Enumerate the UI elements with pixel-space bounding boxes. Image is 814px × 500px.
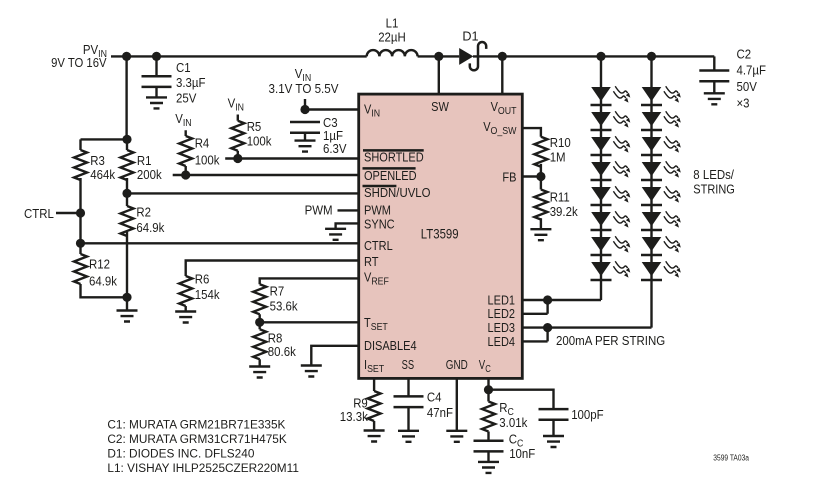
svg-text:GND: GND xyxy=(446,358,468,372)
svg-text:100k: 100k xyxy=(195,152,220,167)
svg-text:L1: L1 xyxy=(386,16,399,31)
svg-text:L1: VISHAY IHLP2525CZER220M11: L1: VISHAY IHLP2525CZER220M11 xyxy=(107,461,299,475)
svg-text:3599 TA03a: 3599 TA03a xyxy=(713,453,749,462)
svg-text:64.9k: 64.9k xyxy=(89,274,117,289)
svg-text:STRING: STRING xyxy=(693,181,735,196)
svg-text:SS: SS xyxy=(402,358,415,372)
svg-text:CTRL: CTRL xyxy=(364,239,393,253)
svg-text:50V: 50V xyxy=(737,79,758,94)
svg-text:C1: C1 xyxy=(176,60,191,75)
svg-text:100k: 100k xyxy=(247,134,272,149)
svg-text:PWM: PWM xyxy=(364,204,391,218)
svg-text:LT3599: LT3599 xyxy=(421,227,459,242)
svg-text:R1: R1 xyxy=(137,153,152,168)
svg-text:R3: R3 xyxy=(90,153,105,168)
svg-text:R6: R6 xyxy=(195,272,210,287)
svg-text:LED4: LED4 xyxy=(488,335,516,349)
svg-text:SHDN/UVLO: SHDN/UVLO xyxy=(364,186,431,200)
svg-text:PWM: PWM xyxy=(305,203,333,218)
svg-text:C2: MURATA GRM31CR71H475K: C2: MURATA GRM31CR71H475K xyxy=(107,432,286,446)
svg-text:3.1V TO 5.5V: 3.1V TO 5.5V xyxy=(269,81,339,96)
svg-text:SW: SW xyxy=(431,100,449,114)
svg-text:154k: 154k xyxy=(195,287,220,302)
svg-text:R12: R12 xyxy=(89,257,110,272)
svg-text:OPENLED: OPENLED xyxy=(364,169,417,183)
svg-text:SYNC: SYNC xyxy=(364,217,395,231)
svg-text:R11: R11 xyxy=(550,190,570,205)
svg-text:22µH: 22µH xyxy=(378,30,406,45)
svg-text:200mA PER STRING: 200mA PER STRING xyxy=(556,333,665,348)
svg-text:10nF: 10nF xyxy=(509,446,535,461)
svg-text:C2: C2 xyxy=(737,46,752,61)
svg-text:CTRL: CTRL xyxy=(24,206,54,221)
svg-text:39.2k: 39.2k xyxy=(550,204,578,219)
svg-text:FB: FB xyxy=(502,171,516,185)
svg-text:R5: R5 xyxy=(247,119,262,134)
svg-text:D1: DIODES INC. DFLS240: D1: DIODES INC. DFLS240 xyxy=(107,447,254,461)
svg-text:6.3V: 6.3V xyxy=(323,141,347,156)
svg-text:1M: 1M xyxy=(550,150,566,165)
svg-text:SHORTLED: SHORTLED xyxy=(364,151,424,165)
svg-text:D1: D1 xyxy=(462,28,478,43)
svg-text:LED1: LED1 xyxy=(488,293,516,307)
svg-text:VIN: VIN xyxy=(228,95,244,113)
svg-text:R7: R7 xyxy=(270,284,285,299)
svg-text:VIN: VIN xyxy=(175,111,191,129)
svg-text:LED2: LED2 xyxy=(488,307,516,321)
svg-text:13.3k: 13.3k xyxy=(340,409,368,424)
svg-text:R2: R2 xyxy=(136,205,151,220)
svg-text:DISABLE4: DISABLE4 xyxy=(364,339,417,353)
svg-text:9V TO 16V: 9V TO 16V xyxy=(51,55,107,70)
svg-text:R10: R10 xyxy=(550,135,571,150)
svg-text:100pF: 100pF xyxy=(571,407,604,422)
svg-text:RT: RT xyxy=(364,255,379,269)
svg-text:64.9k: 64.9k xyxy=(136,220,164,235)
svg-text:8 LEDs/: 8 LEDs/ xyxy=(693,167,734,182)
svg-text:47nF: 47nF xyxy=(427,405,453,420)
svg-text:3.3µF: 3.3µF xyxy=(176,75,206,90)
svg-text:C4: C4 xyxy=(427,390,442,405)
svg-text:LED3: LED3 xyxy=(488,321,516,335)
svg-text:464k: 464k xyxy=(90,167,115,182)
svg-text:53.6k: 53.6k xyxy=(270,299,298,314)
svg-text:80.6k: 80.6k xyxy=(268,344,296,359)
svg-text:C1: MURATA GRM21BR71E335K: C1: MURATA GRM21BR71E335K xyxy=(107,418,285,432)
svg-text:3.01k: 3.01k xyxy=(499,415,527,430)
svg-text:25V: 25V xyxy=(176,90,197,105)
svg-text:R4: R4 xyxy=(195,135,210,150)
svg-text:4.7µF: 4.7µF xyxy=(737,63,767,78)
svg-text:200k: 200k xyxy=(137,167,162,182)
svg-text:×3: ×3 xyxy=(737,96,750,111)
